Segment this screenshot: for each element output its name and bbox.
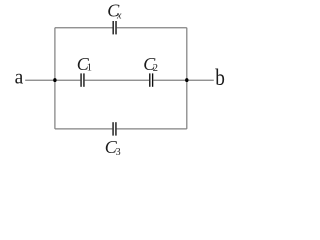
capacitor C3 — [112, 122, 116, 135]
node junction left — [53, 78, 56, 82]
wire bottom-right segment — [117, 128, 187, 130]
capacitor C1 — [80, 73, 84, 86]
wire right vertical — [186, 28, 188, 129]
wire left vertical — [54, 28, 56, 129]
wire a to node — [25, 79, 80, 81]
svg-text:b: b — [215, 64, 225, 90]
capacitor C2 — [149, 73, 153, 86]
svg-text:1: 1 — [87, 63, 92, 74]
node junction right — [185, 78, 188, 82]
svg-text:a: a — [15, 67, 24, 88]
wire top-left segment — [55, 27, 113, 29]
wire bottom-left segment — [55, 128, 112, 130]
wire top-right segment — [117, 27, 187, 29]
svg-text:2: 2 — [153, 63, 158, 74]
wire C2 to b — [153, 79, 214, 81]
capacitor Cx — [113, 21, 117, 34]
svg-text:x: x — [116, 10, 122, 21]
wire between C1 and C2 — [85, 79, 149, 81]
svg-text:3: 3 — [116, 147, 121, 158]
